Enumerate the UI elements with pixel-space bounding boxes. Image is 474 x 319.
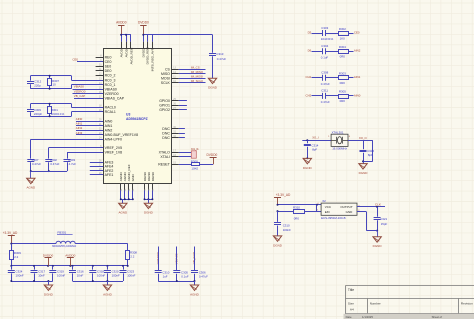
svg-text:R310: R310: [293, 205, 300, 209]
capacitor C309 220pF: [27, 104, 42, 117]
power port AVDD0 (top): [116, 21, 127, 35]
wire AFE stub: [90, 174, 103, 176]
svg-text:C304: C304: [321, 44, 328, 48]
wire DNC stub: [179, 137, 185, 139]
svg-text:D6: D6: [308, 49, 312, 53]
resistor R301 1K0±0.1%: [48, 103, 65, 118]
svg-text:RC0_3: RC0_3: [105, 78, 116, 82]
svg-text:VBIAS_CAP: VBIAS_CAP: [105, 97, 125, 101]
svg-text:AGND: AGND: [26, 186, 36, 190]
svg-text:ECS-3951M-160-B: ECS-3951M-160-B: [321, 216, 345, 220]
net label VBIAS0 + wire: [73, 85, 104, 90]
svg-text:DVDD0: DVDD0: [43, 253, 54, 257]
svg-text:CE0: CE0: [72, 57, 78, 61]
capacitor C321 15pF: [374, 207, 388, 232]
svg-text:CLK: CLK: [375, 203, 382, 207]
svg-text:AIN4-LPF0: AIN4-LPF0: [105, 138, 122, 142]
svg-text:RCAL1: RCAL1: [105, 110, 116, 114]
capacitor C305 0.1uF: [173, 247, 189, 282]
svg-text:GPIO2: GPIO2: [159, 108, 170, 112]
net label VZERO0 + wire: [73, 89, 104, 93]
capacitor C303 / resistor R302 filter row: [312, 26, 354, 41]
svg-text:0.47uF: 0.47uF: [199, 274, 208, 278]
svg-text:XTAL301: XTAL301: [332, 130, 344, 134]
capacitor C304 / resistor R304 filter row: [312, 44, 354, 59]
svg-text:GND: GND: [346, 210, 354, 214]
svg-text:SCLK: SCLK: [161, 81, 171, 85]
svg-text:DGND: DGND: [44, 292, 54, 296]
svg-text:10nF: 10nF: [77, 273, 84, 277]
capacitor C310 100nF (osc decoupling): [274, 211, 291, 236]
net label D6: [308, 49, 312, 53]
svg-text:AIN2: AIN2: [354, 49, 361, 53]
svg-text:0.47uF: 0.47uF: [217, 57, 227, 61]
svg-text:VREF_2V5: VREF_2V5: [105, 146, 123, 150]
wire +3.3V rail with FB301: [10, 243, 127, 245]
svg-text:MISO: MISO: [161, 72, 170, 76]
svg-text:RC0_1: RC0_1: [105, 83, 116, 87]
svg-text:0.47uF: 0.47uF: [50, 162, 59, 166]
wire AGND bus below chip: [120, 190, 134, 203]
U301 left pins (stubs, numbers, names): [96, 56, 139, 178]
capacitor C319 100nF: [49, 266, 65, 281]
svg-text:DGND: DGND: [144, 211, 154, 215]
wire AVDD rail: [120, 34, 131, 42]
capacitor C317 10nF: [31, 266, 46, 281]
svg-text:10: 10: [53, 83, 57, 87]
svg-text:AIN3: AIN3: [76, 131, 83, 135]
wire AGND bottom rail: [73, 280, 124, 285]
svg-text:+3.3V_AD: +3.3V_AD: [3, 231, 18, 235]
svg-text:DGND: DGND: [273, 243, 283, 247]
svg-text:0.47uF: 0.47uF: [321, 82, 330, 86]
svg-text:15pF: 15pF: [381, 222, 388, 226]
svg-text:A4: A4: [350, 308, 354, 312]
U301 right pins (stubs, numbers, names): [158, 67, 179, 166]
net label CE0: [354, 30, 360, 34]
net label AIN3 + wire: [76, 131, 103, 135]
svg-text:100nF: 100nF: [112, 273, 120, 277]
ground DGND (chip): [144, 203, 154, 214]
svg-text:IM_SCLK: IM_SCLK: [191, 79, 203, 83]
wire loop C309/R301 to RACL0: [31, 104, 104, 108]
svg-text:E/D: E/D: [325, 210, 331, 214]
capacitor C318 100nF: [89, 266, 105, 281]
resistor R307 10: [48, 75, 60, 90]
net label VZERO0 (vertical): [156, 252, 160, 265]
wire CLK output: [357, 203, 385, 208]
svg-text:2.2: 2.2: [14, 255, 18, 259]
svg-text:220p: 220p: [34, 83, 41, 87]
svg-text:VB_CAP: VB_CAP: [74, 94, 85, 98]
wire SPI IM_MOSI: [179, 75, 206, 79]
svg-text:OUTPUT: OUTPUT: [340, 205, 353, 209]
svg-text:AVDD_REG: AVDD_REG: [129, 47, 133, 64]
capacitor C324 100nF: [8, 266, 24, 281]
svg-text:C308: C308: [321, 71, 328, 75]
svg-text:XTALI: XTALI: [160, 155, 169, 159]
wire DNC stub: [179, 133, 185, 135]
svg-text:AVDD: AVDD: [124, 48, 128, 57]
capacitor C312 220p: [27, 76, 42, 89]
svg-text:C303: C303: [321, 26, 328, 30]
wire AFE stub: [90, 166, 103, 168]
svg-text:AIN0: AIN0: [105, 119, 113, 123]
wire SPI IM_SCLK: [179, 79, 206, 83]
resistor R308b 2.2 (right): [126, 244, 138, 266]
svg-text:DGND: DGND: [151, 171, 155, 181]
net label CH1: [306, 75, 312, 79]
svg-text:DVDD0: DVDD0: [207, 153, 218, 157]
capacitor C320 100nF: [104, 266, 120, 281]
capacitor C303 4.7uF: [64, 158, 77, 171]
svg-text:CH1: CH1: [306, 75, 312, 79]
wire SPI IM_CS: [179, 66, 206, 70]
svg-text:AIN1: AIN1: [76, 122, 83, 126]
svg-text:RESET: RESET: [158, 163, 171, 167]
net label CH2: [306, 93, 312, 97]
net label AIN1 + wire: [76, 122, 103, 126]
svg-text:0R0: 0R0: [340, 55, 346, 59]
svg-text:8pF: 8pF: [312, 148, 317, 152]
capacitor C313 0.47uF: [209, 52, 226, 78]
capacitor C314 8pF: [304, 140, 319, 159]
wire loop C309/R301 to RCAL1: [31, 112, 104, 117]
svg-text:MOSI: MOSI: [161, 76, 170, 80]
net label AIN0: [354, 93, 361, 97]
svg-text:C313: C313: [216, 52, 224, 56]
svg-text:XO_I: XO_I: [312, 136, 319, 140]
svg-text:0R0: 0R0: [340, 81, 346, 85]
wire XO_O from crystal: [348, 136, 373, 162]
svg-text:100nF: 100nF: [97, 273, 105, 277]
svg-text:Revision: Revision: [461, 302, 473, 306]
net label AIN0 + wire: [76, 117, 103, 121]
wire loop C312/R307 to RC0_3: [31, 76, 104, 81]
svg-text:VZERO0: VZERO0: [74, 89, 86, 93]
svg-text:DNC: DNC: [162, 127, 170, 131]
component X301_D between XTALO and XTALI: [191, 148, 200, 158]
crystal XTAL301 16.000MHz: [328, 130, 351, 150]
svg-text:Number: Number: [370, 302, 381, 306]
svg-text:1K0±0.1%: 1K0±0.1%: [51, 112, 65, 116]
svg-text:100nF: 100nF: [127, 273, 135, 277]
svg-text:VCC: VCC: [325, 205, 332, 209]
svg-text:1uF: 1uF: [163, 274, 168, 278]
svg-text:1K0: 1K0: [340, 36, 346, 40]
U301 top pins (stubs and vertical names): [120, 42, 155, 72]
capacitor C315 8pF: [360, 140, 375, 162]
svg-text:D5: D5: [308, 30, 312, 34]
svg-text:10nF±1%: 10nF±1%: [321, 37, 334, 41]
resistor R309 2.2: [10, 244, 22, 266]
capacitor C323 100nF: [120, 266, 136, 281]
svg-text:100nF: 100nF: [16, 273, 24, 277]
wire DVDD rail to C313: [142, 34, 212, 53]
svg-text:X2: X2: [322, 199, 326, 203]
svg-text:CE0: CE0: [105, 60, 112, 64]
svg-text:AD5941BCPZ: AD5941BCPZ: [126, 117, 148, 121]
op-amp U301 AD5941BCPZ IC body: [104, 49, 172, 184]
svg-text:100nF: 100nF: [57, 273, 65, 277]
wire VCC rail to oscillator: [277, 204, 322, 211]
svg-text:AGND: AGND: [190, 292, 200, 296]
svg-text:Date: Date: [346, 315, 352, 319]
svg-text:GND: GND: [131, 174, 135, 182]
svg-text:R302: R302: [339, 27, 346, 31]
oscillator X2 ECS-3951M-160-B: [317, 199, 360, 220]
svg-text:VBIAS0: VBIAS0: [74, 85, 85, 89]
capacitor C307 0.47uF: [27, 158, 41, 172]
svg-text:DGND: DGND: [208, 86, 218, 90]
wire DNC stub: [179, 128, 185, 130]
svg-text:AIN0: AIN0: [76, 117, 83, 121]
svg-text:R305: R305: [339, 90, 346, 94]
svg-text:VZERO0: VZERO0: [156, 252, 160, 265]
svg-text:DVDD0: DVDD0: [138, 21, 149, 25]
svg-text:XO_O: XO_O: [359, 136, 368, 140]
title block: [344, 286, 474, 319]
svg-text:VREF_1V8: VREF_1V8: [105, 150, 123, 154]
capacitor C310 1uF: [155, 247, 170, 282]
power port AVDD0 (decoupling): [65, 253, 75, 266]
net label AIN1: [354, 75, 361, 79]
svg-text:DGND: DGND: [359, 171, 369, 175]
svg-text:220pF: 220pF: [34, 112, 42, 116]
ground AGND (decoupling): [103, 285, 113, 296]
svg-text:AIN0: AIN0: [354, 93, 361, 97]
svg-text:AFE1: AFE1: [105, 173, 114, 177]
svg-text:R304: R304: [339, 45, 346, 49]
svg-text:10nF: 10nF: [38, 273, 45, 277]
svg-text:0.1uF: 0.1uF: [321, 56, 329, 60]
svg-text:RE0: RE0: [105, 56, 112, 60]
svg-text:DGND: DGND: [373, 244, 383, 248]
wire XO_I to crystal: [302, 136, 331, 142]
svg-text:CH2: CH2: [306, 93, 312, 97]
svg-text:DVDD_REG: DVDD_REG: [146, 47, 150, 65]
wire DGND bus below chip: [144, 190, 154, 203]
wire GPIO0: [179, 100, 187, 102]
wire VREF_2V5 to C302: [49, 148, 104, 159]
svg-text:CE0: CE0: [354, 30, 360, 34]
svg-text:0R0: 0R0: [340, 99, 346, 103]
svg-text:VBIAS0: VBIAS0: [105, 87, 117, 91]
svg-text:DGND: DGND: [303, 166, 313, 170]
net label VBIAS0 (vertical): [174, 253, 178, 264]
svg-text:R303: R303: [339, 72, 346, 76]
wire GPIO1: [179, 105, 187, 107]
wire decoupling top rail: [10, 265, 128, 267]
power port DVDD0 (RESET pullup): [207, 153, 218, 164]
svg-text:INTB_REG_AVR: INTB_REG_AVR: [151, 47, 155, 71]
svg-text:8pF: 8pF: [368, 153, 373, 157]
svg-text:XTALO: XTALO: [159, 151, 170, 155]
svg-text:C311: C311: [321, 89, 328, 93]
svg-text:AIN0-BUF_VREF1V8: AIN0-BUF_VREF1V8: [105, 133, 139, 137]
svg-text:GPIO0: GPIO0: [159, 99, 170, 103]
ferrite bead FB301 600ohm: [52, 231, 77, 248]
svg-text:GPIO1: GPIO1: [159, 104, 170, 108]
svg-text:IM_CS: IM_CS: [191, 66, 200, 70]
svg-text:AGND: AGND: [103, 292, 113, 296]
wire GPIO2: [179, 109, 187, 111]
wire XTALO: [179, 152, 192, 154]
svg-text:C310: C310: [283, 223, 290, 227]
svg-text:U3: U3: [126, 112, 130, 116]
net label AIN2 + wire: [76, 126, 103, 130]
resistor R308 10K0 (RESET pullup): [179, 160, 213, 171]
svg-text:DE0: DE0: [105, 69, 112, 73]
net label VB_CAP + wire: [74, 94, 103, 99]
wire oscillator GND: [357, 212, 377, 231]
net label CE0 + wire: [72, 57, 103, 61]
ground DGND below C321: [373, 231, 383, 249]
wire XTALI: [179, 156, 192, 158]
svg-text:AIN1: AIN1: [354, 75, 361, 79]
svg-text:2.2: 2.2: [130, 254, 134, 258]
power port DVDD0 (decoupling): [43, 253, 54, 266]
svg-text:AIN1: AIN1: [105, 124, 113, 128]
svg-text:AIN2: AIN2: [76, 126, 83, 130]
svg-text:IM_MOSI: IM_MOSI: [191, 75, 203, 79]
wire AIN4-LPF0 to C307: [31, 139, 104, 158]
svg-text:VZERO0: VZERO0: [105, 92, 119, 96]
wire VB cap ground bus: [158, 280, 195, 285]
capacitor C308 / resistor R303 filter row: [312, 71, 354, 86]
wire AFE stub: [90, 162, 103, 164]
capacitor C306 0.47uF: [191, 247, 208, 282]
net label AIN2: [354, 49, 361, 53]
wire DGND bottom rail: [10, 280, 53, 285]
svg-text:AGND: AGND: [118, 211, 128, 215]
wire VREF_1V8 to C303: [67, 152, 103, 159]
ground DGND (decoupling): [44, 285, 54, 296]
svg-text:AIN2: AIN2: [105, 128, 113, 132]
wire AFE stub: [90, 170, 103, 172]
svg-text:RC0_2: RC0_2: [105, 74, 116, 78]
svg-text:IM_MISO: IM_MISO: [191, 70, 204, 74]
svg-text:0.47uF: 0.47uF: [321, 100, 330, 104]
ground AGND (VB caps): [190, 285, 200, 296]
resistor R310 0R0: [277, 205, 322, 220]
svg-text:AVDD0: AVDD0: [65, 253, 75, 257]
ground DGND below C314: [303, 158, 313, 169]
capacitor C316 10nF: [69, 266, 84, 281]
svg-text:Sheet of: Sheet of: [432, 315, 443, 319]
svg-text:0.47uF: 0.47uF: [32, 162, 41, 166]
svg-text:600Ω±25%,100MHz: 600Ω±25%,100MHz: [52, 244, 77, 248]
capacitor C311 / resistor R305 filter row: [312, 89, 354, 104]
svg-text:0.1uF: 0.1uF: [181, 274, 189, 278]
svg-text:10K0: 10K0: [191, 167, 198, 171]
power port DVDD0 (top): [138, 21, 149, 35]
wire loop C312/R307 to RC0_1: [31, 85, 104, 89]
svg-text:Size: Size: [348, 302, 354, 306]
svg-text:0R0: 0R0: [294, 216, 300, 220]
svg-text:100nF: 100nF: [283, 228, 291, 232]
U301 bottom pins (stubs and vertical names): [119, 164, 155, 191]
svg-text:RACL0: RACL0: [105, 106, 116, 110]
net label D5: [308, 30, 312, 34]
ground AGND below VREF caps: [26, 171, 36, 190]
svg-text:1/1/2025: 1/1/2025: [362, 315, 373, 319]
ground DGND below C313: [208, 78, 218, 89]
svg-text:+3.3V_AD: +3.3V_AD: [276, 193, 291, 197]
svg-text:16.000MHz: 16.000MHz: [332, 147, 347, 151]
svg-text:DNC: DNC: [162, 131, 170, 135]
svg-text:SE0: SE0: [105, 65, 112, 69]
power port +3.3V_AD (filter): [3, 231, 18, 244]
svg-text:FB301: FB301: [57, 231, 66, 235]
svg-text:AVDD: AVDD: [120, 48, 124, 57]
svg-text:CS: CS: [165, 67, 171, 71]
svg-text:4.7uF: 4.7uF: [69, 162, 77, 166]
capacitor C302 0.47uF: [45, 158, 59, 172]
wire VREF ground bus: [31, 171, 67, 173]
ground DGND below C315: [359, 161, 369, 175]
ground AGND (chip): [118, 203, 128, 214]
svg-text:AVDD0: AVDD0: [116, 21, 127, 25]
svg-text:R308: R308: [191, 160, 198, 164]
wire SPI IM_MISO: [179, 70, 206, 74]
svg-text:DNC: DNC: [162, 136, 170, 140]
svg-text:C321: C321: [380, 217, 387, 221]
net label VB_CAP (vertical): [192, 252, 196, 264]
svg-text:Title: Title: [348, 288, 354, 292]
power port +3.3V_AD (oscillator): [274, 193, 291, 205]
ground DGND below C310: [273, 236, 283, 247]
